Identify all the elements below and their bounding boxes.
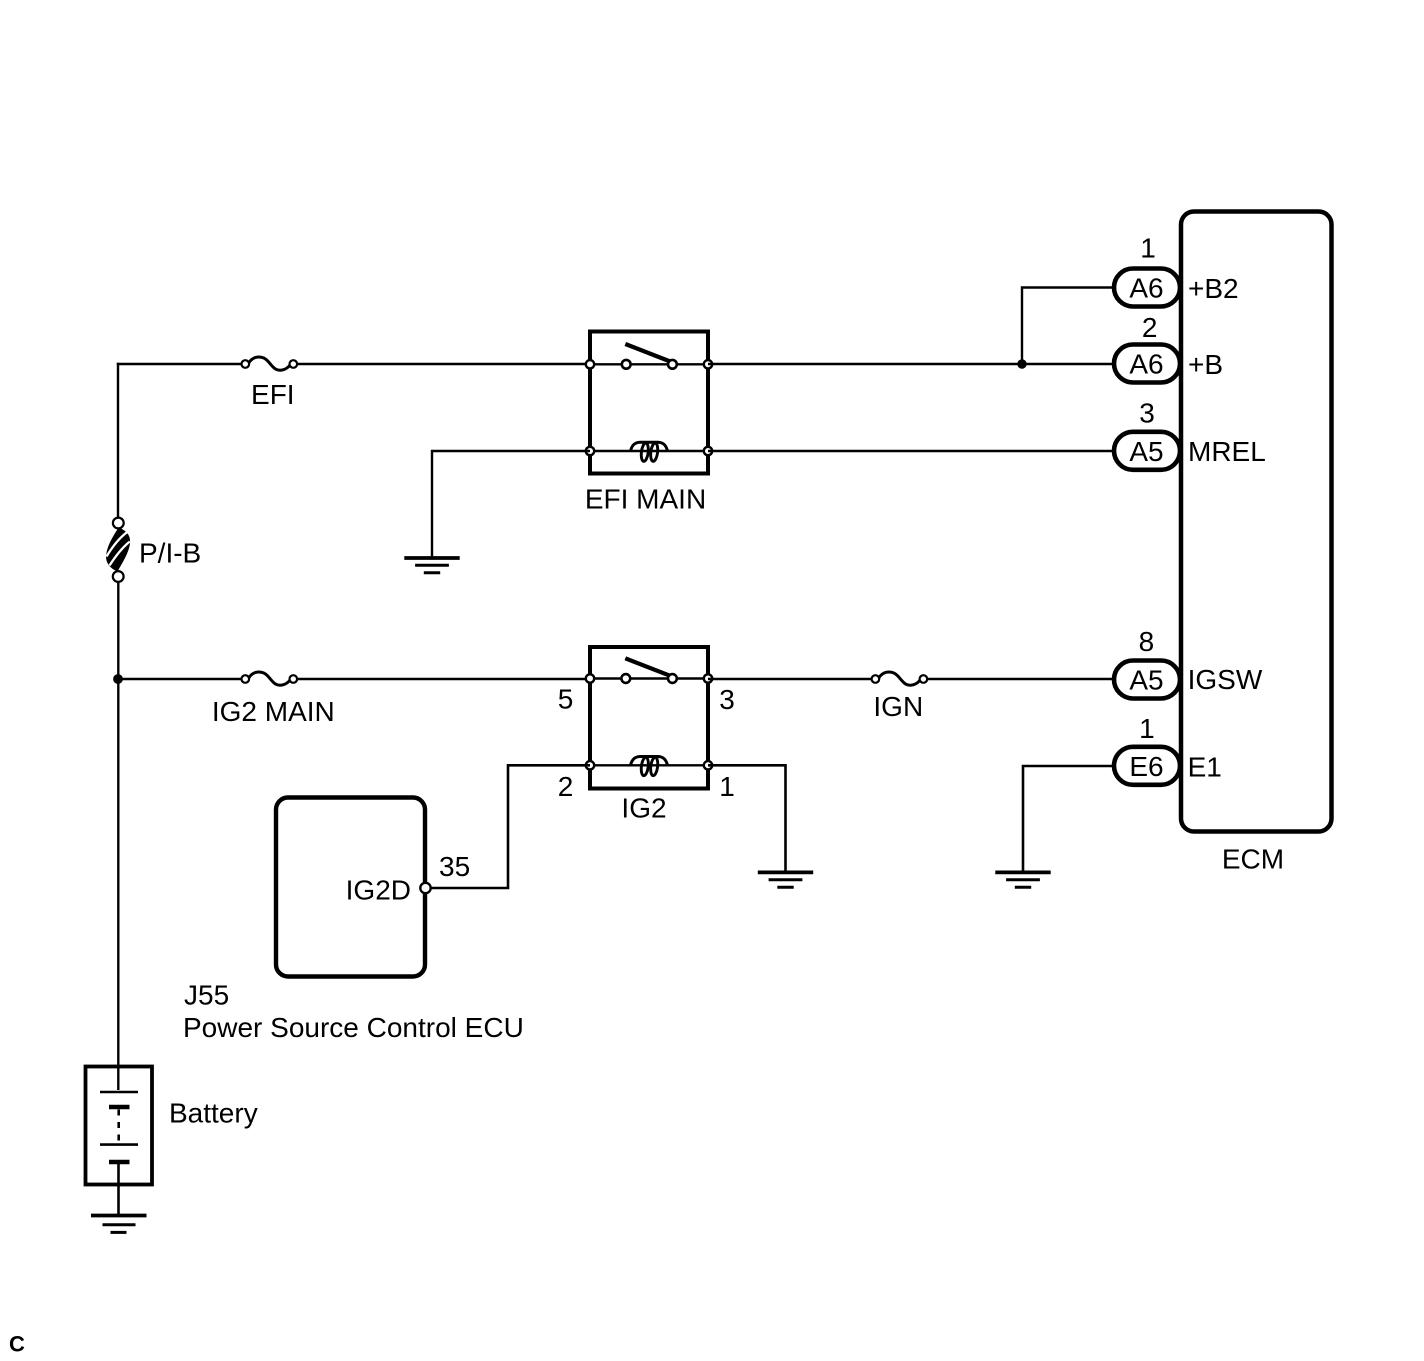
svg-text:5: 5 [558,684,574,715]
svg-text:8: 8 [1139,626,1155,657]
battery dashed cell line [117,1110,120,1144]
node IG2 pin 1 [704,761,712,769]
fuse IGN [872,672,928,685]
svg-text:IGN: IGN [873,691,923,722]
svg-text:MREL: MREL [1188,436,1266,467]
connector oval A5 pin8 (IGSW) [1114,661,1180,699]
svg-text:+B: +B [1188,349,1223,380]
relay EFI MAIN box [590,332,708,474]
coil (IG2) [631,757,668,777]
connector oval A5 pin3 (MREL) [1114,432,1180,470]
wire EFI MAIN switch row inside [590,363,708,365]
svg-text:EFI MAIN: EFI MAIN [585,484,706,515]
switch blade (IG2) [625,658,671,676]
wire IG2 pin2 to IG2D [431,765,590,888]
battery plate long bottom [100,1143,138,1146]
svg-text:IG2 MAIN: IG2 MAIN [212,696,335,727]
svg-text:A5: A5 [1129,665,1163,696]
node EFI MAIN pin bottom-left [586,447,594,455]
svg-text:2: 2 [558,771,574,802]
fuse EFI [242,357,298,370]
connector oval A6 pin2 (+B) [1114,345,1180,383]
battery plate short bottom [109,1160,130,1165]
svg-text:3: 3 [1139,398,1155,429]
wire EFI MAIN coil row inside [590,450,708,452]
relay IG2 box [590,647,708,789]
ground (IG2 pin1) [758,872,813,887]
svg-text:IG2D: IG2D [346,875,411,906]
pin IG2D [420,883,430,893]
svg-text:+B2: +B2 [1188,273,1239,304]
svg-text:P/I-B: P/I-B [139,538,201,569]
ground (E1) [995,872,1050,887]
J55 Power Source Control ECU box [276,798,425,977]
ground (battery) [91,1216,147,1233]
switch contact left (EFI MAIN) [622,360,631,369]
svg-text:C: C [9,1332,25,1357]
svg-text:35: 35 [439,851,470,882]
wire left bus vertical lower (P/I-B to battery) [117,582,119,1090]
svg-text:2: 2 [1142,312,1158,343]
svg-text:J55: J55 [184,979,229,1010]
svg-text:A5: A5 [1129,436,1163,467]
junction dot left bus / IG2 MAIN row [113,674,123,684]
wire left bus vertical upper (to P/I-B) [117,363,119,518]
battery plate short top [109,1105,130,1110]
connector oval E6 pin1 (E1) [1114,747,1180,785]
node IG2 pin 3 [704,674,712,682]
svg-text:1: 1 [719,771,735,802]
svg-text:1: 1 [1140,233,1156,264]
svg-text:A6: A6 [1129,273,1163,304]
svg-text:A6: A6 [1129,349,1163,380]
wire +B row (relay to ECM) [708,363,1114,365]
wire IG2 coil row inside [590,764,708,766]
svg-text:E1: E1 [1188,752,1222,783]
wire IG2 pin1 to ground [708,765,786,871]
fuse IG2 MAIN [242,672,298,685]
svg-text:EFI: EFI [251,379,295,410]
junction dot +B/+B2 [1017,359,1026,368]
node IG2 pin 2 [586,761,594,769]
svg-text:1: 1 [1139,713,1155,744]
switch contact right (IG2) [668,674,677,683]
battery plate long top [100,1091,138,1094]
switch blade (EFI MAIN) [625,344,671,362]
wire IG2 MAIN row left segment [118,678,242,680]
wire battery to ground [117,1164,120,1214]
wire E1 to ground [1023,766,1114,871]
node IG2 pin 5 [586,674,594,682]
switch contact left (IG2) [621,674,630,683]
svg-text:Power Source Control ECU: Power Source Control ECU [183,1012,524,1043]
wire EFI MAIN coil to ground [432,451,590,557]
node EFI MAIN pin top-right [704,360,712,368]
ground (EFI MAIN coil) [404,558,459,573]
connector oval A6 pin1 (+B2) [1114,269,1180,307]
wire IGN fuse to IGSW [927,678,1115,680]
svg-text:IG2: IG2 [621,793,666,824]
svg-text:E6: E6 [1129,751,1163,782]
svg-text:3: 3 [719,684,735,715]
node EFI MAIN pin top-left [586,360,594,368]
wire IG2 switch row inside [590,677,708,679]
wire +B2 branch [1022,288,1114,365]
ECM box [1181,212,1332,832]
node EFI MAIN pin bottom-right [704,447,712,455]
wire IG2 pin3 to IGN fuse [708,678,872,680]
connector P/I-B twisted symbol [106,518,130,582]
wire EFI fuse to EFI MAIN relay [297,363,593,365]
switch contact right (EFI MAIN) [668,360,677,369]
battery box [86,1067,153,1185]
wire top bus left segment (battery branch to EFI fuse) [117,363,242,365]
svg-text:Battery: Battery [169,1098,258,1129]
wire IG2 MAIN fuse to IG2 relay [297,678,593,680]
coil (EFI MAIN) [631,442,668,462]
svg-text:IGSW: IGSW [1188,664,1263,695]
wire MREL row (coil to ECM) [708,450,1114,452]
svg-text:ECM: ECM [1222,844,1284,875]
